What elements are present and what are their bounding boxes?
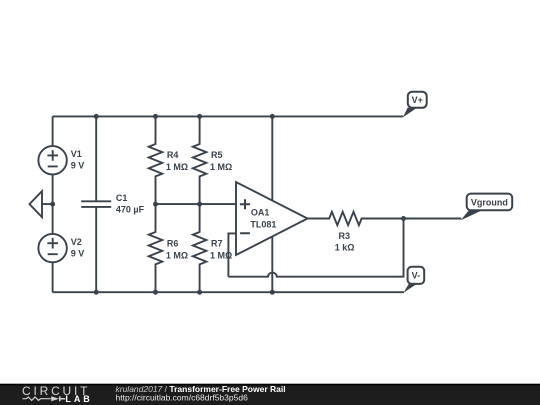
svg-text:R3: R3 bbox=[339, 231, 351, 241]
svg-text:R7: R7 bbox=[211, 238, 223, 248]
svg-text:C1: C1 bbox=[116, 193, 128, 203]
svg-text:Vground: Vground bbox=[471, 198, 508, 208]
svg-text:1 kΩ: 1 kΩ bbox=[335, 243, 355, 253]
svg-text:http://circuitlab.com/c68drf5b: http://circuitlab.com/c68drf5b3p5d6 bbox=[116, 392, 249, 402]
svg-text:TL081: TL081 bbox=[250, 220, 276, 230]
svg-text:1 MΩ: 1 MΩ bbox=[210, 250, 232, 260]
svg-text:470 µF: 470 µF bbox=[116, 205, 145, 215]
svg-text:1 MΩ: 1 MΩ bbox=[166, 162, 188, 172]
svg-text:V1: V1 bbox=[71, 149, 82, 159]
svg-text:9 V: 9 V bbox=[71, 249, 85, 259]
svg-text:9 V: 9 V bbox=[71, 161, 85, 171]
svg-text:V+: V+ bbox=[412, 95, 423, 105]
svg-text:V-: V- bbox=[412, 271, 421, 281]
svg-text:1 MΩ: 1 MΩ bbox=[210, 162, 232, 172]
svg-text:V2: V2 bbox=[71, 237, 82, 247]
svg-text:LAB: LAB bbox=[65, 394, 90, 404]
svg-text:R6: R6 bbox=[167, 238, 179, 248]
svg-text:1 MΩ: 1 MΩ bbox=[166, 250, 188, 260]
svg-text:R4: R4 bbox=[167, 150, 179, 160]
svg-text:OA1: OA1 bbox=[251, 207, 270, 217]
svg-text:R5: R5 bbox=[211, 150, 223, 160]
